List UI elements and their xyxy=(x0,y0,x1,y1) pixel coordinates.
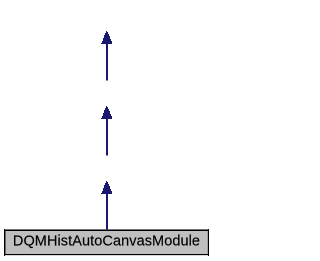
inheritance arrow 3: stem xyxy=(106,194,108,230)
inheritance arrow 2 (middle): arrowhead xyxy=(101,106,112,119)
node border top xyxy=(4,229,209,230)
node border right xyxy=(208,229,209,256)
inheritance arrow 2: stem xyxy=(106,119,108,156)
node border left xyxy=(4,229,5,256)
node fill xyxy=(5,231,208,254)
inheritance arrow 1 (top): arrowhead xyxy=(101,31,112,44)
node border bottom xyxy=(4,254,209,255)
class node box DQMHistAutoCanvasModule xyxy=(4,229,209,256)
inheritance arrow 1: stem xyxy=(106,44,108,81)
svg-text:DQMHistAutoCanvasModule: DQMHistAutoCanvasModule xyxy=(13,234,200,250)
inheritance arrow 3 (bottom): arrowhead xyxy=(101,181,112,194)
